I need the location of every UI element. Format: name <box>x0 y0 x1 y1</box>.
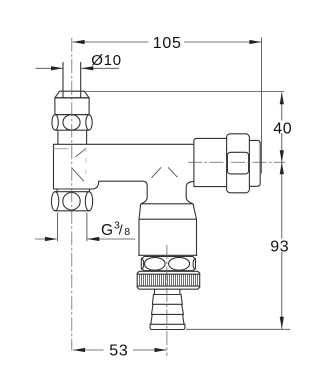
svg-text:/: / <box>119 221 124 237</box>
svg-text:8: 8 <box>124 226 131 238</box>
arrow d10 left <box>51 66 63 70</box>
svg-text:G: G <box>101 222 114 239</box>
arrow 53 left <box>73 348 85 352</box>
dimension line 40/93 <box>281 92 283 120</box>
centerline vertical outlet <box>166 245 168 356</box>
inlet pipe <box>62 63 64 98</box>
intersection mark neck right <box>168 167 177 177</box>
arrow 105 left <box>73 40 85 44</box>
hose nipple end cap <box>150 324 185 329</box>
dimension texts <box>91 35 292 360</box>
hose barb 2 <box>152 304 154 314</box>
faint bore line <box>54 148 69 150</box>
valve block bottom edge <box>139 254 197 256</box>
svg-text:93: 93 <box>270 238 289 255</box>
svg-text:105: 105 <box>153 35 182 52</box>
arrow 40 top <box>280 92 284 104</box>
lower-left nut right face <box>85 192 92 211</box>
svg-text:53: 53 <box>109 343 128 360</box>
arrow 105 right <box>249 40 261 44</box>
arrow 53 right <box>155 348 167 352</box>
swivel nut ellipse right <box>169 257 190 270</box>
dimension tails diameter 10 <box>36 67 63 69</box>
arrow 40 bottom <box>280 150 284 162</box>
arrow G38 left <box>45 237 57 241</box>
arrow 93 top <box>280 162 284 174</box>
upper hex nut center ellipse <box>63 115 80 130</box>
knurling hatch <box>139 274 197 286</box>
swivel nut ellipse left <box>145 257 166 270</box>
intersection mark neck left <box>152 167 162 178</box>
side outlet union nut <box>227 134 261 193</box>
extension line right of 105 <box>261 38 263 174</box>
swivel nut side arcs <box>142 258 196 269</box>
intersection mark lower-left <box>72 168 84 181</box>
lower-left nut left face <box>51 192 58 211</box>
upper hex nut right face <box>86 115 92 130</box>
lower-left hex nut <box>55 191 89 193</box>
knurled ring <box>137 271 200 289</box>
svg-text:Ø10: Ø10 <box>91 52 121 69</box>
body bottom profile <box>54 181 148 204</box>
hose barb 3 <box>151 314 152 324</box>
valve block parting line <box>139 218 197 220</box>
side outlet underside <box>194 186 227 188</box>
arrow G38 right <box>87 237 99 241</box>
side outlet cylinder <box>194 138 228 186</box>
union nut hex face <box>227 152 248 174</box>
upper hex nut left face <box>52 115 58 130</box>
end cap <box>249 140 260 186</box>
arrow 93 bottom <box>280 317 284 329</box>
arrowheads <box>45 40 284 352</box>
compression nut trapezoid <box>55 91 89 98</box>
union nut body <box>227 134 250 193</box>
hose nipple step <box>153 289 155 294</box>
upper hex nut <box>55 114 89 116</box>
intersection mark upper-left <box>75 149 86 157</box>
lower-left nut circle <box>63 193 80 210</box>
centerline vertical left <box>71 38 73 351</box>
nut lower cylinder <box>57 130 59 144</box>
faint hidden bore edge <box>85 147 87 179</box>
swivel nut <box>141 257 195 271</box>
extension lines G3/8 <box>57 213 59 242</box>
thin lines group <box>35 38 290 357</box>
body neck right profile <box>186 181 194 203</box>
valve block top collar <box>139 204 197 254</box>
dimension line 53 <box>73 349 104 351</box>
extension line bottom for 93 <box>186 328 290 330</box>
body top edge <box>54 143 194 145</box>
centerline horizontal outlet <box>188 161 286 163</box>
svg-text:40: 40 <box>273 121 292 138</box>
arrow d10 right <box>81 66 93 70</box>
dimension tails G3/8 <box>35 238 57 240</box>
dimension line 105 <box>73 41 149 43</box>
hose barb 1 <box>154 294 182 296</box>
extension line top for 40 <box>86 91 285 93</box>
lower-left cylinder <box>56 189 58 192</box>
compression nut band <box>55 98 89 115</box>
body left edge <box>53 144 55 189</box>
